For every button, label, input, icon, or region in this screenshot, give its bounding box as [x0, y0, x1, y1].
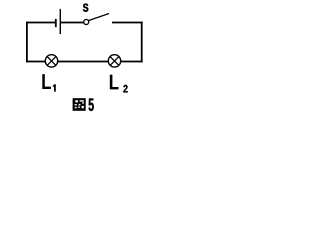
label L2 letter L — [110, 75, 119, 90]
lamp L1 cross — [47, 57, 56, 66]
wire bottom-middle segment (between lamps) — [58, 61, 108, 63]
wire bottom-right segment — [121, 61, 143, 63]
switch arm (open) — [88, 14, 109, 21]
lamp L1 circle — [45, 55, 57, 67]
wire top-left segment — [26, 22, 56, 24]
battery positive long plate — [59, 9, 61, 34]
caption numeral 5 — [89, 99, 94, 111]
label L1 subscript 1 — [53, 84, 56, 91]
caption character 图 (drawn) — [73, 98, 86, 111]
lamp L2 circle — [108, 55, 120, 67]
switch label s — [83, 4, 88, 12]
switch pivot circle — [84, 20, 89, 25]
wire top-right segment (switch to corner) — [112, 22, 143, 24]
lamp L2 cross — [110, 57, 119, 66]
wire bottom-left segment — [26, 61, 45, 63]
wire right side — [141, 22, 143, 63]
wire left side — [26, 22, 28, 63]
label L1 letter L — [42, 74, 51, 89]
label L2 subscript 2 — [123, 85, 127, 93]
battery negative short plate — [55, 19, 57, 27]
wire top-middle segment (battery to switch) — [61, 22, 85, 24]
